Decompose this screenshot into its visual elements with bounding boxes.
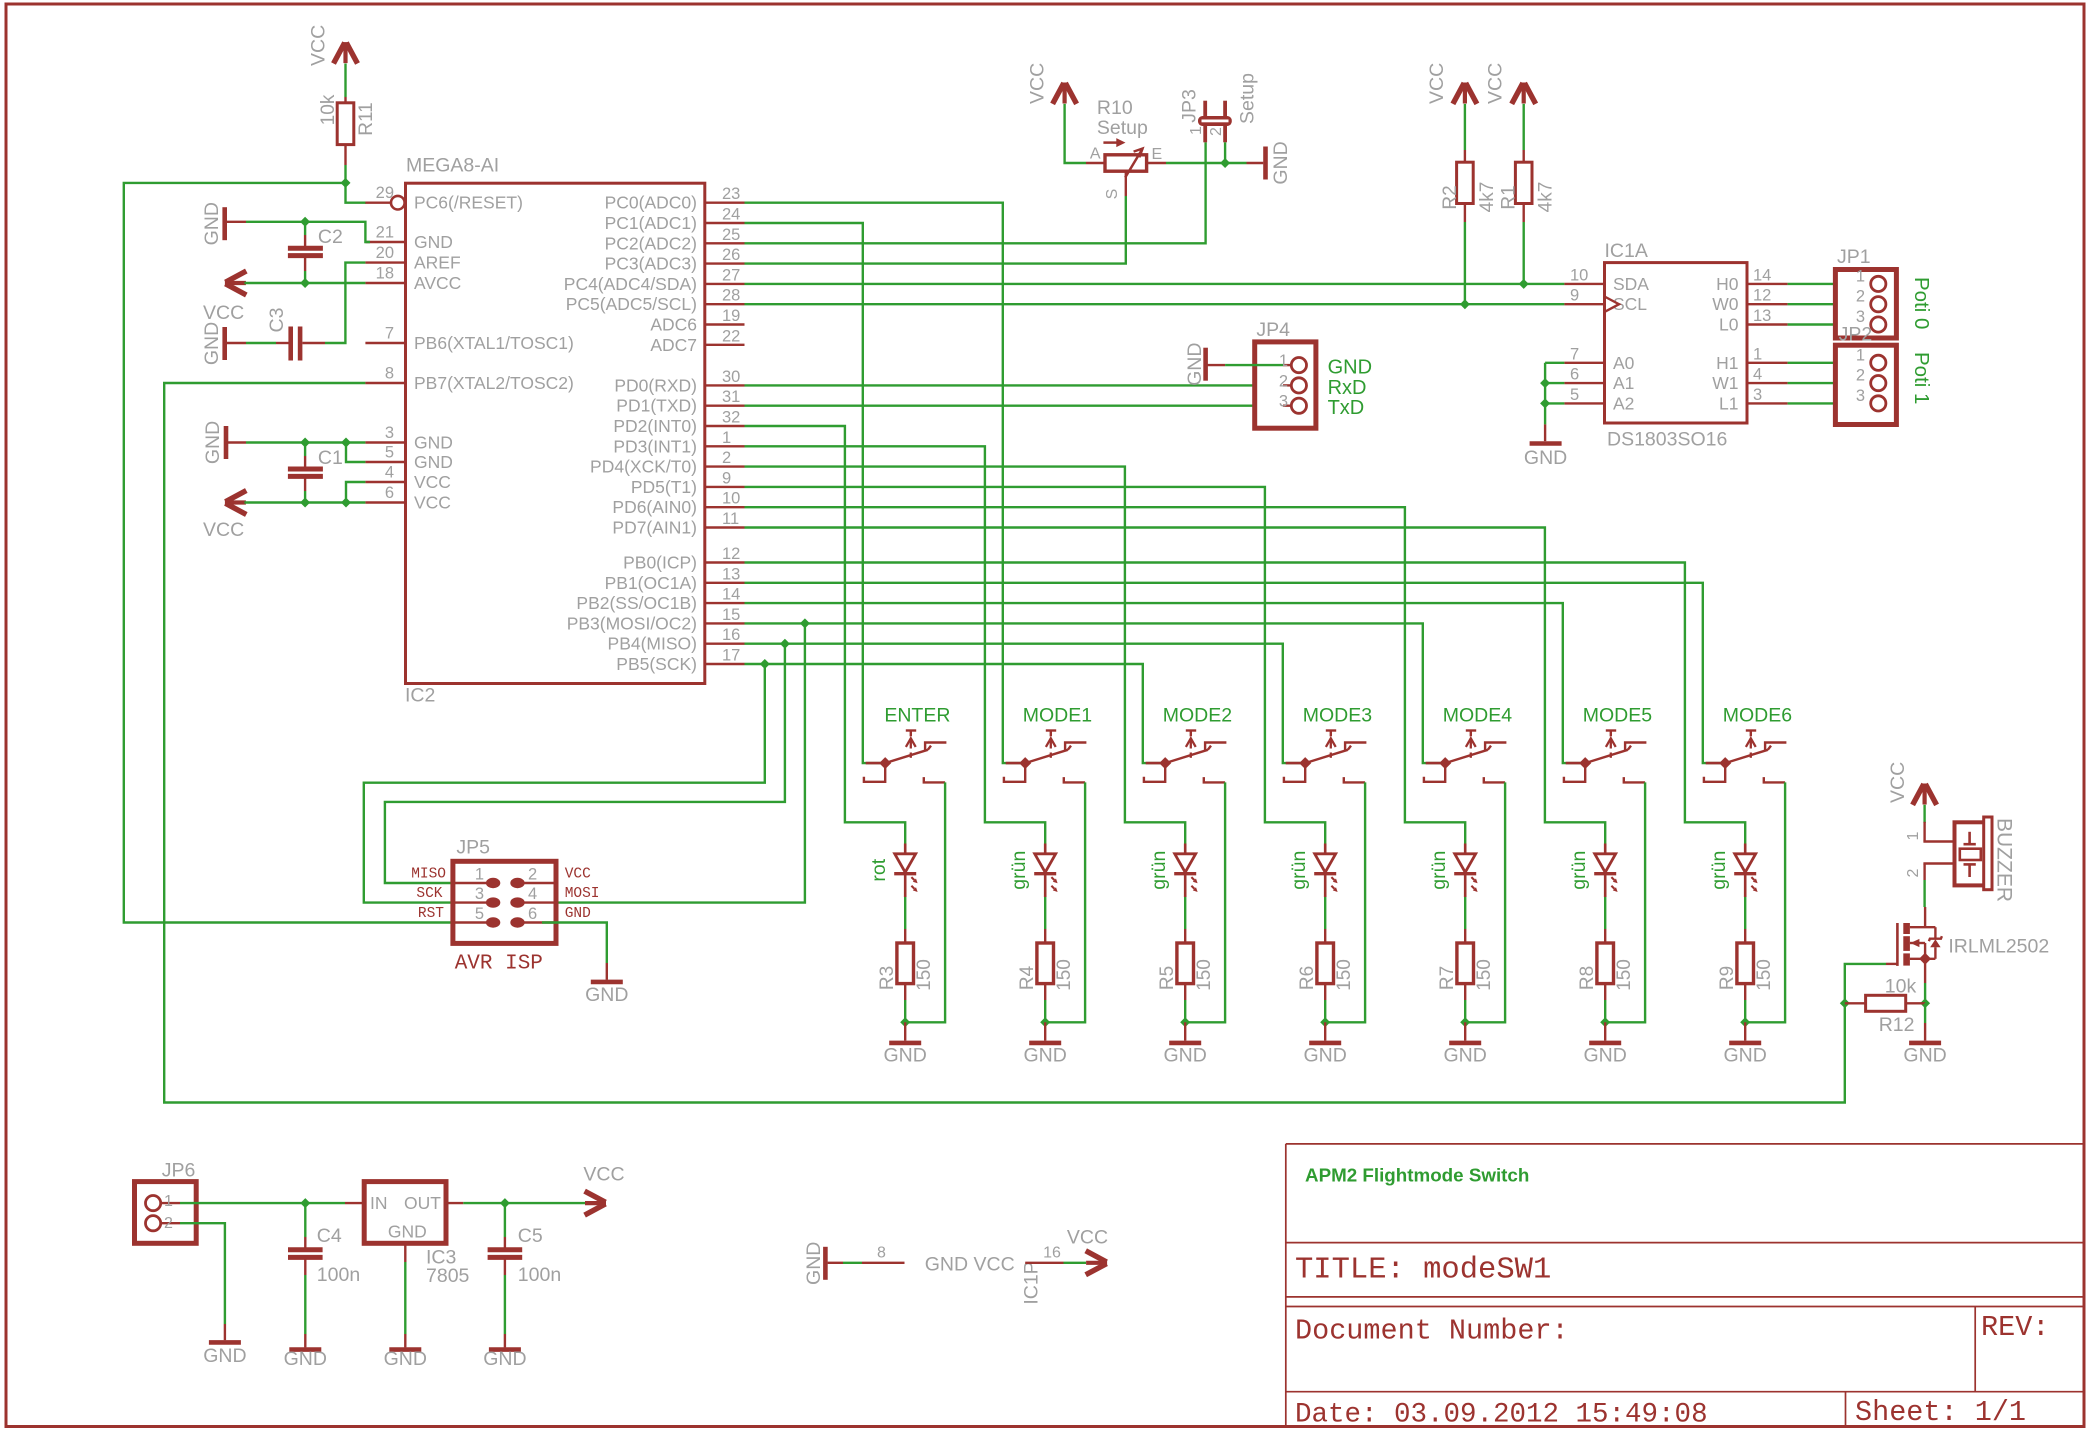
JP5 pad pin 2 bbox=[523, 882, 556, 884]
svg-text:VCC: VCC bbox=[1426, 63, 1448, 104]
JP4 pad pin 3 bbox=[1283, 405, 1291, 407]
wire C4 to GND bbox=[304, 1275, 306, 1334]
svg-text:25: 25 bbox=[722, 226, 740, 244]
junction reset net bbox=[341, 178, 351, 188]
IC1A pin 10 SDA bbox=[1564, 283, 1604, 285]
svg-text:GND: GND bbox=[565, 906, 591, 922]
IC1A pin 14 H0 bbox=[1747, 283, 1788, 285]
svg-text:Setup: Setup bbox=[1237, 73, 1259, 124]
svg-text:E: E bbox=[1152, 146, 1163, 163]
svg-text:16: 16 bbox=[722, 626, 740, 644]
connector JP1 body bbox=[1835, 270, 1896, 339]
ground symbol GND (column ENTER) bbox=[904, 1022, 906, 1040]
ground symbol GND (column MODE4) bbox=[1464, 1022, 1466, 1040]
svg-text:10: 10 bbox=[722, 490, 740, 508]
svg-text:PC1(ADC1): PC1(ADC1) bbox=[605, 213, 697, 233]
svg-text:RST: RST bbox=[418, 906, 444, 922]
svg-text:3: 3 bbox=[1753, 386, 1762, 404]
switch MODE4 symbol bbox=[1424, 731, 1507, 783]
JP1 pad pin 3 bbox=[1871, 317, 1886, 332]
svg-text:100n: 100n bbox=[518, 1264, 561, 1286]
digital potentiometer IC1A body bbox=[1605, 263, 1748, 423]
svg-text:H1: H1 bbox=[1716, 353, 1738, 373]
svg-text:4k7: 4k7 bbox=[1536, 182, 1557, 213]
wire LED to R7 bbox=[1464, 897, 1466, 929]
LED D3 (grün) bbox=[1174, 844, 1197, 898]
wire VCC to R2 bbox=[1464, 104, 1466, 150]
junction VCC row C1 bbox=[300, 498, 310, 508]
junction C5 top bbox=[500, 1198, 510, 1208]
svg-text:MODE5: MODE5 bbox=[1583, 705, 1653, 727]
wire to GND (Setup net) bbox=[1247, 162, 1264, 164]
wire JP6 pin2 to GND bbox=[180, 1223, 225, 1324]
svg-text:grün: grün bbox=[1708, 851, 1730, 890]
svg-text:31: 31 bbox=[722, 388, 740, 406]
svg-text:GND: GND bbox=[203, 1345, 246, 1367]
junction A2 bbox=[1540, 398, 1550, 408]
JP4 pad pin 1 bbox=[1283, 364, 1291, 366]
junction C4 top bbox=[300, 1198, 310, 1208]
svg-text:IC1A: IC1A bbox=[1605, 240, 1648, 262]
svg-text:JP6: JP6 bbox=[162, 1160, 196, 1182]
svg-text:GND: GND bbox=[1444, 1045, 1487, 1067]
resistor R6 150 bbox=[1324, 929, 1326, 943]
IC1P power pin GND (pin 8) bbox=[823, 1247, 828, 1280]
svg-text:PC6(/RESET): PC6(/RESET) bbox=[414, 193, 523, 213]
wire gate lead bbox=[1886, 963, 1897, 965]
resistor R1 4k7 bbox=[1522, 150, 1524, 162]
ground symbol GND (C2) bbox=[222, 207, 227, 240]
wire IC3 OUT to VCC bbox=[446, 1202, 463, 1204]
svg-text:PD0(RXD): PD0(RXD) bbox=[614, 375, 697, 395]
svg-text:Document Number:: Document Number: bbox=[1295, 1315, 1569, 1348]
title block outline bbox=[1286, 1144, 2084, 1426]
wire R7 to GND bbox=[1464, 1000, 1466, 1022]
junction on PB5 pin wire bbox=[760, 659, 770, 669]
svg-text:RxD: RxD bbox=[1328, 377, 1367, 399]
wire VCC to R11 bbox=[344, 64, 346, 98]
switch MODE3 symbol bbox=[1284, 731, 1367, 783]
power symbol VCC (7805 out) bbox=[585, 1201, 606, 1205]
svg-text:W0: W0 bbox=[1712, 294, 1739, 314]
svg-text:PD4(XCK/T0): PD4(XCK/T0) bbox=[590, 457, 697, 477]
svg-text:2: 2 bbox=[722, 449, 731, 467]
svg-text:3: 3 bbox=[475, 885, 484, 903]
svg-text:GND: GND bbox=[1903, 1045, 1946, 1067]
wire IC1A to connector pad bbox=[1788, 323, 1862, 325]
connector JP4 body bbox=[1255, 342, 1316, 428]
svg-text:C3: C3 bbox=[266, 308, 288, 333]
transistor Q1 IRLML2502 N-MOSFET bbox=[1897, 923, 1942, 966]
svg-text:GND: GND bbox=[202, 421, 224, 464]
svg-text:150: 150 bbox=[1054, 959, 1075, 991]
wire PB7 net (pin8 to bottom bus to R12/gate) bbox=[164, 383, 1886, 1103]
svg-text:Poti 1: Poti 1 bbox=[1910, 352, 1933, 404]
svg-text:R1: R1 bbox=[1499, 185, 1520, 209]
power symbol VCC (pin6 row) bbox=[225, 500, 246, 504]
svg-text:L1: L1 bbox=[1719, 393, 1738, 413]
ground symbol GND (JP5) bbox=[606, 963, 608, 980]
svg-text:150: 150 bbox=[1754, 959, 1775, 991]
svg-text:PD3(INT1): PD3(INT1) bbox=[613, 436, 697, 456]
svg-text:PC2(ADC2): PC2(ADC2) bbox=[605, 233, 697, 253]
wire PC2 net to JP3 pin 1 bbox=[745, 142, 1206, 243]
wire C3 to GND bbox=[246, 342, 276, 344]
ground symbol GND (JP6 pin2) bbox=[224, 1324, 226, 1340]
power symbol VCC (top left, R11) bbox=[343, 42, 347, 63]
LED D1 (rot) bbox=[894, 844, 917, 898]
svg-text:1: 1 bbox=[1856, 267, 1865, 285]
svg-text:R11: R11 bbox=[356, 102, 377, 135]
svg-text:32: 32 bbox=[722, 409, 740, 427]
JP2 pad pin 3 bbox=[1871, 396, 1886, 411]
svg-text:PB0(ICP): PB0(ICP) bbox=[623, 553, 697, 573]
R10 S pin stub bbox=[1125, 171, 1127, 196]
junction LED3 gnd net bbox=[1180, 1017, 1190, 1027]
svg-text:PC3(ADC3): PC3(ADC3) bbox=[605, 254, 697, 274]
svg-text:VCC: VCC bbox=[1027, 63, 1049, 104]
svg-text:GND: GND bbox=[1270, 141, 1292, 184]
svg-text:1: 1 bbox=[1856, 346, 1865, 364]
JP5 pad pin 5 bbox=[453, 921, 487, 923]
buzzer pin1 lead bbox=[1923, 822, 1925, 842]
IC1A pin 9 SCL bbox=[1564, 303, 1604, 305]
svg-text:MODE6: MODE6 bbox=[1723, 705, 1792, 727]
wire MOSI net (PB3 junction to JP5 pin4) bbox=[542, 623, 805, 902]
svg-text:JP1: JP1 bbox=[1837, 246, 1871, 268]
svg-text:A1: A1 bbox=[1613, 373, 1634, 393]
svg-text:PD6(AIN0): PD6(AIN0) bbox=[612, 497, 697, 517]
svg-text:30: 30 bbox=[722, 368, 740, 386]
svg-text:VCC: VCC bbox=[203, 302, 244, 324]
svg-text:R4: R4 bbox=[1017, 965, 1038, 990]
svg-text:9: 9 bbox=[722, 469, 731, 487]
svg-text:grün: grün bbox=[1568, 851, 1590, 890]
wire IC1A to connector pad bbox=[1788, 283, 1862, 285]
IC1A pin 1 H1 bbox=[1747, 362, 1788, 364]
ground symbol GND (column MODE2) bbox=[1184, 1022, 1186, 1040]
svg-text:5: 5 bbox=[475, 905, 484, 923]
IC1A pin 3 L1 bbox=[1747, 402, 1788, 404]
svg-text:R5: R5 bbox=[1157, 966, 1178, 990]
junction R12 right bbox=[1920, 998, 1930, 1008]
wire IC1A to connector pad bbox=[1788, 402, 1862, 404]
svg-text:20: 20 bbox=[376, 244, 394, 262]
svg-text:GND: GND bbox=[384, 1348, 427, 1370]
svg-text:4: 4 bbox=[528, 885, 537, 903]
svg-text:4: 4 bbox=[385, 464, 394, 482]
ground symbol GND (column MODE6) bbox=[1744, 1022, 1746, 1040]
svg-text:ADC7: ADC7 bbox=[650, 335, 697, 355]
svg-text:TITLE: modeSW1: TITLE: modeSW1 bbox=[1295, 1254, 1551, 1288]
svg-text:21: 21 bbox=[376, 224, 394, 242]
svg-text:MOSI: MOSI bbox=[565, 886, 600, 902]
capacitor C1 bbox=[304, 443, 306, 457]
junction R2 bbox=[1460, 299, 1470, 309]
LED D6 (grün) bbox=[1594, 844, 1617, 898]
wire R2 to bus bbox=[1464, 222, 1466, 304]
svg-text:SDA: SDA bbox=[1613, 274, 1649, 294]
svg-text:MODE4: MODE4 bbox=[1443, 705, 1513, 727]
resistor R8 150 bbox=[1604, 929, 1606, 943]
svg-text:L0: L0 bbox=[1719, 315, 1739, 335]
IC1P pin 16 to VCC bbox=[1025, 1262, 1063, 1264]
svg-text:R3: R3 bbox=[877, 966, 898, 990]
junction R1 bbox=[1519, 279, 1529, 289]
junction on PB3 pin wire bbox=[800, 618, 810, 628]
wire VCC row to pin6 bbox=[244, 501, 365, 503]
wire RESET net (R11/PC6 to JP5 RST) bbox=[124, 183, 470, 923]
svg-text:GND: GND bbox=[414, 232, 453, 252]
LED D2 (grün) bbox=[1034, 844, 1057, 898]
wire JP4 pin1 to GND bbox=[1206, 364, 1226, 366]
svg-text:5: 5 bbox=[1570, 386, 1579, 404]
svg-text:IRLML2502: IRLML2502 bbox=[1948, 936, 2049, 958]
junction pin5 branch bbox=[341, 438, 351, 448]
svg-text:GND: GND bbox=[1184, 343, 1206, 386]
JP5 pad pin 4 bbox=[523, 901, 556, 903]
ground symbol GND (C4) bbox=[304, 1334, 306, 1347]
IC2 left pin stubs and numbers bbox=[365, 203, 406, 503]
svg-text:VCC: VCC bbox=[583, 1164, 624, 1186]
svg-text:12: 12 bbox=[1753, 287, 1771, 305]
svg-text:VCC: VCC bbox=[1887, 762, 1909, 803]
svg-text:W1: W1 bbox=[1712, 373, 1738, 393]
svg-text:SCK: SCK bbox=[416, 886, 442, 902]
ground symbol GND (IC3) bbox=[404, 1334, 406, 1347]
LED D5 (grün) bbox=[1454, 844, 1477, 898]
wire R1 to bus bbox=[1522, 222, 1524, 284]
wire GND to C1/pin3/pin5 bbox=[226, 441, 246, 443]
svg-text:10k: 10k bbox=[1885, 976, 1917, 998]
power symbol VCC (R2) bbox=[1463, 83, 1467, 104]
svg-text:1: 1 bbox=[722, 429, 731, 447]
svg-text:1: 1 bbox=[1753, 345, 1762, 363]
capacitor C4 bbox=[304, 1203, 306, 1237]
svg-text:MISO: MISO bbox=[411, 867, 446, 883]
svg-text:GND: GND bbox=[803, 1242, 825, 1285]
svg-text:VCC: VCC bbox=[203, 519, 244, 541]
wire PB5 net to MODE2 switch bbox=[745, 664, 1166, 763]
svg-text:MODE1: MODE1 bbox=[1023, 705, 1092, 727]
svg-text:VCC: VCC bbox=[565, 867, 591, 883]
svg-text:GND: GND bbox=[388, 1222, 427, 1242]
wire C1 bottom to VCC row bbox=[304, 491, 306, 503]
svg-text:VCC: VCC bbox=[974, 1254, 1015, 1276]
svg-text:IN: IN bbox=[370, 1193, 388, 1213]
svg-text:14: 14 bbox=[1753, 266, 1771, 284]
wire switch MODE2 to LED resistor junction bbox=[1185, 782, 1225, 1022]
resistor R4 150 bbox=[1044, 929, 1046, 943]
svg-text:12: 12 bbox=[722, 545, 740, 563]
junction C1 top bbox=[300, 438, 310, 448]
svg-text:PD5(T1): PD5(T1) bbox=[631, 477, 697, 497]
resistor R2 4k7 bbox=[1464, 150, 1466, 162]
JP4 pad pin 2 bbox=[1283, 384, 1291, 386]
svg-text:17: 17 bbox=[722, 647, 740, 665]
svg-text:14: 14 bbox=[722, 586, 740, 604]
svg-text:1: 1 bbox=[1279, 352, 1288, 370]
svg-text:8: 8 bbox=[877, 1245, 886, 1262]
capacitor C3 bbox=[303, 342, 326, 344]
svg-text:19: 19 bbox=[722, 307, 740, 325]
junction pin4 branch bbox=[341, 498, 351, 508]
svg-text:10k: 10k bbox=[318, 94, 339, 125]
wire PD6 net to LED5 bbox=[745, 507, 1466, 843]
svg-text:A0: A0 bbox=[1613, 353, 1635, 373]
jumper JP3 Setup bbox=[1203, 101, 1207, 143]
svg-text:GND: GND bbox=[1024, 1045, 1067, 1067]
switch MODE6 symbol bbox=[1704, 731, 1787, 783]
svg-text:PD2(INT0): PD2(INT0) bbox=[613, 416, 697, 436]
svg-text:A: A bbox=[1090, 146, 1101, 163]
svg-text:150: 150 bbox=[914, 959, 935, 991]
svg-text:2: 2 bbox=[1208, 127, 1225, 136]
wire IC1A address pins to GND bbox=[1545, 362, 1564, 364]
connector JP2 body bbox=[1835, 345, 1896, 424]
wire buzzer pin2 to MOSFET drain bbox=[1923, 862, 1954, 864]
svg-text:R12: R12 bbox=[1879, 1014, 1915, 1036]
svg-text:4k7: 4k7 bbox=[1477, 182, 1498, 213]
ground symbol GND (column MODE3) bbox=[1324, 1022, 1326, 1040]
switch MODE2 symbol bbox=[1144, 731, 1227, 783]
svg-text:C1: C1 bbox=[318, 447, 343, 469]
svg-text:JP5: JP5 bbox=[456, 837, 490, 859]
svg-text:2: 2 bbox=[528, 866, 537, 884]
wire R6 to GND bbox=[1324, 1000, 1326, 1022]
connector JP6 body bbox=[135, 1182, 197, 1244]
capacitor C5 bbox=[504, 1203, 506, 1237]
wire JP5 pin6 to GND bbox=[542, 923, 607, 964]
wire PB1 net to MODE6 switch bbox=[745, 583, 1726, 763]
power symbol VCC (R10) bbox=[1062, 83, 1066, 104]
junction A1 bbox=[1540, 378, 1550, 388]
svg-text:7: 7 bbox=[1570, 345, 1579, 363]
power symbol VCC (IC1P) bbox=[1086, 1261, 1107, 1265]
svg-text:100n: 100n bbox=[317, 1264, 360, 1286]
power symbol VCC (AVCC row) bbox=[225, 281, 246, 285]
wire switch MODE3 to LED resistor junction bbox=[1325, 782, 1365, 1022]
svg-text:Date: 03.09.2012 15:49:08: Date: 03.09.2012 15:49:08 bbox=[1295, 1400, 1708, 1429]
wire PB0 net to LED7 bbox=[745, 563, 1746, 844]
svg-text:GND: GND bbox=[1328, 357, 1372, 379]
svg-text:R2: R2 bbox=[1440, 185, 1461, 209]
junction LED4 gnd net bbox=[1320, 1017, 1330, 1027]
wire GND to C2/pin21 bbox=[225, 221, 246, 223]
svg-text:Sheet: 1/1: Sheet: 1/1 bbox=[1855, 1396, 2026, 1429]
svg-text:AREF: AREF bbox=[414, 253, 461, 273]
IC1A pin 6 A1 bbox=[1564, 382, 1604, 384]
wire R4 to GND bbox=[1044, 1000, 1046, 1022]
voltage regulator IC3 7805 body bbox=[345, 1202, 364, 1204]
resistor R3 150 bbox=[904, 929, 906, 943]
svg-text:PB6(XTAL1/TOSC1): PB6(XTAL1/TOSC1) bbox=[414, 333, 574, 353]
power symbol VCC (R1) bbox=[1522, 83, 1526, 104]
resistor R9 150 bbox=[1744, 929, 1746, 943]
JP5 pad pin 3 bbox=[453, 901, 487, 903]
wire C5 to GND bbox=[504, 1275, 506, 1334]
svg-text:16: 16 bbox=[1043, 1245, 1061, 1262]
JP5 pad pin 1 bbox=[453, 882, 487, 884]
JP6 pad pin 2 bbox=[146, 1216, 161, 1231]
wire PD2 net to LED1 bbox=[745, 426, 906, 844]
wire AVCC net bbox=[244, 282, 365, 284]
JP2 pad pin 1 bbox=[1871, 355, 1886, 370]
wire JP6 pin1 to IC3 IN bbox=[180, 1202, 345, 1204]
svg-text:C2: C2 bbox=[318, 226, 343, 248]
svg-text:2: 2 bbox=[1279, 372, 1288, 390]
wire PB2 net to MODE5 switch bbox=[745, 603, 1586, 763]
ground symbol GND (IC1A) bbox=[1544, 424, 1546, 441]
svg-text:grün: grün bbox=[1008, 851, 1030, 890]
resistor R7 150 bbox=[1464, 929, 1466, 943]
resistor R12 10k bbox=[1845, 1002, 1866, 1004]
ground symbol GND (column MODE5) bbox=[1604, 1022, 1606, 1040]
svg-text:IC2: IC2 bbox=[405, 685, 435, 707]
wire VCC to R1 bbox=[1522, 104, 1524, 150]
svg-text:OUT: OUT bbox=[404, 1193, 441, 1213]
wire PB4 net to MODE3 switch bbox=[745, 644, 1306, 763]
svg-text:Poti 0: Poti 0 bbox=[1910, 277, 1933, 329]
junction C2 top bbox=[300, 217, 310, 227]
wire VCC to buzzer pin1 bbox=[1923, 805, 1925, 823]
svg-text:PB7(XTAL2/TOSC2): PB7(XTAL2/TOSC2) bbox=[414, 373, 574, 393]
svg-text:2: 2 bbox=[1905, 868, 1922, 877]
wire switch MODE6 to LED resistor junction bbox=[1745, 782, 1785, 1022]
svg-text:150: 150 bbox=[1334, 959, 1355, 991]
IC1A pin 5 A2 bbox=[1564, 402, 1604, 404]
svg-text:AVCC: AVCC bbox=[414, 273, 461, 293]
svg-text:VCC: VCC bbox=[308, 25, 330, 66]
svg-text:1: 1 bbox=[1188, 126, 1205, 135]
wire TxD net (PD1 to JP4) bbox=[745, 405, 1284, 407]
wire LED to R5 bbox=[1184, 897, 1186, 929]
svg-text:PB2(SS/OC1B): PB2(SS/OC1B) bbox=[576, 593, 697, 613]
wire R8 to GND bbox=[1604, 1000, 1606, 1022]
svg-text:150: 150 bbox=[1614, 959, 1635, 991]
svg-text:R9: R9 bbox=[1717, 966, 1738, 990]
JP5 pad pin 6 bbox=[523, 921, 556, 923]
wire PC3 net to R10 S bbox=[745, 196, 1126, 264]
svg-text:ADC6: ADC6 bbox=[650, 315, 697, 335]
wire PD7 net to LED6 bbox=[745, 528, 1606, 844]
svg-text:23: 23 bbox=[722, 185, 740, 203]
svg-text:PB1(OC1A): PB1(OC1A) bbox=[605, 573, 697, 593]
svg-text:R8: R8 bbox=[1577, 966, 1598, 990]
svg-text:GND: GND bbox=[201, 202, 223, 245]
svg-text:GND: GND bbox=[1724, 1045, 1767, 1067]
svg-text:GND: GND bbox=[1164, 1045, 1207, 1067]
svg-text:IC1P: IC1P bbox=[1021, 1261, 1043, 1304]
wire R5 to GND bbox=[1184, 1000, 1186, 1022]
svg-text:rot: rot bbox=[868, 858, 890, 881]
svg-text:GND: GND bbox=[414, 452, 453, 472]
LED D7 (grün) bbox=[1734, 844, 1757, 898]
switch MODE1 symbol bbox=[1004, 731, 1087, 783]
wire PC1 net to ENTER switch bbox=[745, 223, 886, 763]
junction LED1 gnd net bbox=[900, 1017, 910, 1027]
svg-text:13: 13 bbox=[1753, 307, 1771, 325]
wire LED to R9 bbox=[1744, 897, 1746, 929]
svg-text:PB3(MOSI/OC2): PB3(MOSI/OC2) bbox=[567, 613, 697, 633]
IC1A pin 12 W0 bbox=[1747, 303, 1788, 305]
svg-text:C5: C5 bbox=[518, 1225, 543, 1247]
svg-text:VCC: VCC bbox=[414, 472, 451, 492]
IC2 right pin stubs bbox=[705, 203, 745, 664]
switch ENTER symbol bbox=[864, 731, 947, 783]
svg-text:GND: GND bbox=[284, 1348, 327, 1370]
svg-text:C4: C4 bbox=[317, 1225, 342, 1247]
